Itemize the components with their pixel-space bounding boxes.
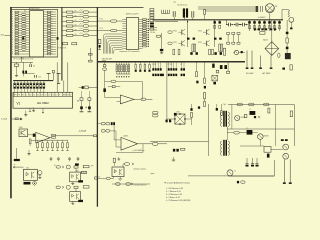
transformer T2 core upper (223, 111, 225, 127)
svg-text:R5 10к: R5 10к (151, 32, 156, 34)
transistor VT10 (235, 115, 240, 120)
chain2 right of LCD (88, 98, 91, 101)
svg-text:BU808: BU808 (264, 135, 269, 137)
svg-text:С1 100мк: С1 100мк (151, 27, 158, 29)
cell base ovals (168, 31, 172, 33)
optocoupler U4 (24, 169, 38, 180)
bottom cluster blobs (173, 149, 175, 152)
svg-text:КТ315: КТ315 (198, 42, 202, 44)
crystal ZQ1 (14, 64, 19, 66)
oval on lower wire 2 (126, 183, 131, 186)
svg-text:C9: C9 (33, 66, 35, 68)
op-amp U7 (121, 137, 138, 150)
svg-text:R: R (12, 21, 13, 23)
svg-text:R: R (12, 51, 13, 53)
box pair bottom (264, 146, 271, 152)
fan motor M1 (265, 4, 274, 13)
blob under xbox (213, 82, 216, 85)
svg-text:Т.РУ: Т.РУ (91, 166, 94, 168)
wire R30 down (104, 70, 106, 88)
wire 4-20 input (12, 118, 22, 120)
terminal AC pads (259, 68, 262, 69)
small rect pair (216, 70, 219, 73)
long vertical wire x167 (166, 63, 168, 120)
oval on lower wire 1 (116, 183, 121, 186)
resistor R24 (89, 60, 93, 62)
svg-text:V1: V1 (17, 101, 21, 105)
svg-text:С2 100мк: С2 100мк (151, 29, 158, 31)
ground top bl (28, 150, 30, 153)
svg-text:P4: P4 (18, 94, 20, 96)
svg-text:R3 IRK2 T08: R3 IRK2 T08 (58, 48, 67, 50)
svg-text:SB1 SB2 SB3: SB1 SB2 SB3 (102, 58, 112, 60)
IC U1 pin stubs (27, 12, 45, 54)
arrow connector bl (13, 166, 15, 168)
main mid bus (97, 61, 245, 63)
svg-text:КТ315: КТ315 (173, 42, 177, 44)
op-amp U5 (120, 95, 134, 104)
right chain resistor (286, 38, 288, 43)
sensor box U306 (19, 129, 28, 137)
left small rects row1 (227, 32, 230, 34)
svg-text:U306: U306 (19, 127, 23, 129)
svg-text:2- 7 Витков 0.35: 2- 7 Витков 0.35 (166, 191, 182, 193)
wire row2 to V3 (75, 188, 77, 191)
svg-text:R: R (12, 26, 13, 28)
svg-text:VD: VD (75, 20, 77, 22)
vertical x274 (273, 160, 275, 176)
drop resistor R30 (104, 63, 106, 65)
resistor R23 (89, 53, 93, 55)
capacitor C3 blob (160, 49, 163, 51)
svg-text:P3: P3 (15, 94, 17, 96)
diamond terminal (32, 181, 37, 185)
LCD module V1 box (13, 92, 73, 108)
wire R6 down (161, 33, 163, 49)
ground stub U2 (99, 48, 101, 50)
svg-text:K: K (26, 94, 27, 96)
svg-text:Камера нагрева: Камера нагрева (134, 169, 147, 171)
cap T2 near bus end (57, 72, 61, 74)
transistor cells Q1-Q4 (173, 20, 215, 47)
oval terminal (241, 181, 245, 183)
svg-text:R: R (12, 28, 13, 30)
svg-text:VD: VD (75, 11, 77, 13)
right chain blob1 (286, 32, 289, 35)
top element right of LCD (82, 86, 84, 89)
terminal DC wires (246, 51, 248, 68)
capacitor cluster top right (226, 23, 247, 27)
long bottom wire (188, 175, 274, 177)
optocoupler V2 (70, 172, 81, 182)
svg-text:D0: D0 (29, 94, 31, 96)
svg-text:L1: L1 (249, 109, 251, 111)
chain x191 (191, 104, 193, 108)
IC U1 body (30, 11, 44, 57)
svg-text:D5: D5 (48, 94, 50, 96)
vertical wire x232 (231, 105, 233, 130)
transformer T2 core lower (223, 140, 225, 156)
opto lower wire (112, 183, 150, 185)
svg-text:D4: D4 (44, 94, 46, 96)
ground under V2 (72, 182, 74, 184)
svg-text:VD: VD (75, 29, 77, 31)
chain R41 (204, 63, 206, 79)
diode-resistor rows block B (62, 9, 98, 36)
vertical wire x275.6 (275, 105, 277, 147)
capacitor C9 (29, 64, 31, 67)
core link wire (227, 127, 229, 140)
svg-text:термо: термо (150, 173, 154, 175)
svg-text:R: R (12, 16, 13, 18)
opto input wire (97, 177, 106, 179)
oval D13 (234, 131, 240, 134)
ground symbol b (33, 108, 35, 111)
connector XP2 ticks (162, 10, 170, 14)
wire y146 segments (240, 145, 264, 147)
transistor Q5 power (234, 50, 238, 54)
svg-text:Камера питания: Камера питания (134, 185, 147, 187)
horizontal wire y129 (227, 128, 294, 130)
+5V arrow (21, 58, 23, 63)
trimmer bank bottom wire (116, 73, 130, 75)
svg-text:R: R (12, 19, 13, 21)
oval on wire (152, 143, 158, 146)
transistor Q8 (283, 153, 289, 159)
frame top border line (10, 6, 143, 8)
wire VD8 right (186, 118, 192, 120)
wire osc top (12, 61, 33, 63)
op-amp U6 (36, 132, 50, 143)
svg-text:D1: D1 (33, 94, 35, 96)
svg-text:КТ315: КТ315 (198, 31, 202, 33)
ground osc (16, 74, 18, 75)
box above bridge (260, 32, 265, 35)
relay K1 (285, 53, 291, 59)
blob near Q5 (241, 51, 243, 53)
fan cable connector (256, 6, 259, 8)
svg-text:M1: M1 (275, 6, 277, 8)
wide blob (161, 74, 164, 76)
wire VD8 left (167, 118, 174, 120)
LCD bottom stub 2 (42, 108, 44, 112)
fan cable wires (198, 6, 255, 8)
wire fan to bus (269, 13, 271, 20)
top right bus (153, 19, 284, 21)
ground under V3 (72, 201, 74, 203)
svg-text:L2: L2 (246, 128, 248, 130)
resistor array left of U1 (12, 11, 27, 55)
jumper mark right (57, 37, 59, 40)
frame left border bar (10, 7, 12, 198)
resistor R52 (52, 137, 56, 139)
hatched rect near V2 (81, 171, 86, 173)
blob pair mid (190, 52, 192, 55)
wire bus end drop (227, 62, 229, 71)
svg-text:R: R (12, 14, 13, 16)
svg-text:ТР-2 Ш-20 АЛЮ(2хП 0.5мм): ТР-2 Ш-20 АЛЮ(2хП 0.5мм) (164, 182, 190, 185)
bridge VD8 corner circles (174, 118, 176, 120)
blob-rect pair x214 (214, 20, 216, 21)
terminal DC pads (246, 68, 249, 69)
resistor right mid (290, 65, 292, 70)
svg-text:P1.0: P1.0 (100, 18, 103, 20)
IC U2 pin stubs (122, 19, 142, 48)
resistor vert x224 (223, 48, 225, 55)
pot symbols row (50, 158, 79, 162)
LCD bus (13, 80, 53, 82)
wire to K2 (16, 148, 18, 159)
blob pair mid2 (214, 52, 216, 55)
right vertical wire (293, 105, 295, 147)
resistor R53 (94, 135, 97, 137)
svg-text:AT89C51-24PC: AT89C51-24PC (126, 13, 139, 16)
capacitor C10 (34, 75, 36, 78)
transistor blobs osc (22, 71, 24, 74)
svg-text:D7: D7 (56, 94, 58, 96)
transistor Q7 (283, 144, 289, 150)
svg-text:V: V (70, 94, 71, 96)
svg-text:R: R (12, 40, 13, 42)
svg-text:R: R (12, 33, 13, 35)
ground near opto (118, 157, 120, 159)
oval VD20 (103, 68, 107, 70)
left margin connector (5, 34, 11, 36)
svg-text:AC 220V: AC 220V (262, 72, 271, 75)
wire transformer top (155, 21, 178, 23)
op-amp U5 output (134, 98, 141, 100)
wire block B right (89, 48, 91, 60)
cell bottom resistors (173, 49, 175, 55)
chain top wires (81, 91, 83, 98)
small comp mid right (244, 114, 247, 117)
cap blobs in1 (111, 122, 113, 125)
box A bottom line (11, 56, 58, 58)
svg-text:VD8: VD8 (176, 111, 179, 113)
LCD bottom stub 1 (29, 108, 31, 111)
resistor above bus x204 (204, 10, 206, 15)
output terminal wires (283, 160, 285, 183)
stub at divider bl (95, 177, 98, 179)
resistor R31 (112, 86, 115, 88)
svg-text:AT89C2051: AT89C2051 (29, 7, 40, 10)
resistor ladder above LCD (14, 81, 45, 93)
svg-text:IC1: IC1 (24, 11, 27, 13)
oval D11 (249, 103, 255, 106)
svg-text:D2: D2 (37, 94, 39, 96)
ground under U3 (119, 177, 121, 179)
resistor R21 (63, 43, 68, 45)
LCD pin strip cells (14, 92, 71, 96)
svg-text:1- 120 Витков 0.32: 1- 120 Витков 0.32 (166, 188, 184, 190)
output terminal pads (283, 182, 286, 184)
fuse oval right (278, 53, 280, 58)
vertical line x62 (block B left edge) (61, 7, 63, 80)
circle meter (289, 17, 294, 22)
opto out wire (122, 164, 124, 167)
caps blobs mid (166, 120, 168, 123)
IC U2 body (126, 18, 138, 50)
ground mid bottom (173, 157, 175, 160)
resistor zigzag top right (288, 10, 290, 18)
wire bl1 (13, 166, 23, 168)
oval pair in2 (101, 130, 105, 133)
trimmer resistor bank (116, 63, 130, 75)
T2 winding arcs (221, 112, 222, 126)
svg-text:R: R (12, 12, 13, 14)
left small rects row2 (227, 42, 230, 44)
Q6 emitter wire (259, 139, 261, 146)
svg-text:R: R (12, 35, 13, 37)
op-amp U6 output (50, 137, 52, 139)
wire in1 down (113, 125, 115, 140)
blob-rect pair x219 (219, 20, 221, 21)
right chain blob2 (286, 47, 289, 50)
black bar under U4 (24, 182, 31, 185)
svg-text:4x IN4007: 4x IN4007 (258, 17, 266, 19)
svg-text:5- 70 Витков 0.35 (КАТ1М): 5- 70 Витков 0.35 (КАТ1М) (166, 199, 191, 202)
LCD pin strip line (13, 95, 73, 97)
svg-text:802: 802 (26, 168, 29, 170)
small comp below bus end (227, 71, 230, 73)
drop x216 (216, 104, 218, 108)
inductor L1 (250, 111, 256, 115)
svg-text:E: E (59, 94, 60, 96)
wire y176 (229, 175, 275, 177)
trimmer bank dots (116, 76, 129, 77)
svg-text:4-20мА: 4-20мА (1, 118, 8, 121)
inductor L2 (247, 130, 253, 135)
svg-text:(с) 303 ШИМ рег: (с) 303 ШИМ рег (133, 150, 146, 152)
resistor array right of U2 (143, 19, 149, 47)
wire osc v1 (16, 62, 18, 64)
svg-text:КЦ405: КЦ405 (263, 39, 268, 41)
terminal AC wires (260, 56, 262, 68)
svg-text:D6: D6 (52, 94, 54, 96)
dark rect D1 (212, 64, 214, 68)
svg-text:4- 2 Витка 0.32: 4- 2 Витка 0.32 (166, 197, 181, 199)
dark rect D3 (224, 65, 227, 69)
resistor above opto (113, 158, 115, 162)
arrow on lower wire (131, 183, 133, 185)
svg-text:+5: +5 (23, 58, 25, 60)
svg-text:НН 0802: НН 0802 (37, 101, 49, 105)
cell resistor pairs (192, 44, 194, 52)
oval D10 (237, 103, 243, 106)
cap circle right of U4 (38, 171, 42, 175)
svg-text:R: R (12, 54, 13, 56)
xbox small (212, 75, 218, 81)
svg-text:P5: P5 (22, 94, 24, 96)
svg-text:набор: набор (102, 60, 106, 62)
oval pair mid1 (152, 111, 158, 114)
blob pair right (281, 139, 284, 141)
svg-text:R: R (12, 49, 13, 51)
capacitor C15 (191, 11, 193, 17)
oval on output (141, 98, 146, 101)
resistor column x150 (150, 9, 154, 31)
svg-text:C7 C8: C7 C8 (168, 64, 172, 66)
svg-text:перемычка п17 выключатель: перемычка п17 выключатель (119, 51, 139, 53)
blob right mid (282, 68, 285, 70)
wire bridge top (271, 20, 273, 42)
svg-text:3- 70 Витков 0.45: 3- 70 Витков 0.45 (166, 194, 183, 196)
cell capacitor blobs (187, 38, 190, 40)
bridge VD8 (175, 114, 185, 124)
svg-text:VD: VD (75, 15, 77, 17)
svg-text:P1.1: P1.1 (100, 28, 103, 30)
wire from divider (97, 123, 101, 125)
capacitor C13 (99, 45, 101, 48)
relay row 2 (56, 186, 60, 188)
blob under V3 (78, 200, 83, 202)
transistor Q9 (227, 170, 233, 176)
svg-text:C5 C6: C5 C6 (152, 64, 156, 66)
svg-text:ВУП: ВУП (76, 171, 79, 173)
resistor below U6 input (29, 139, 31, 144)
svg-text:Тр2: Тр2 (223, 104, 226, 106)
bridge rectifier VD1 (265, 42, 279, 56)
dark rect D2 (220, 65, 223, 69)
long vertical x208 (208, 104, 210, 156)
capacitor C12 (98, 40, 101, 44)
svg-text:VD: VD (75, 34, 77, 36)
diode row under top bus (248, 20, 281, 31)
svg-text:R: R (12, 47, 13, 49)
chain1 right of LCD (80, 98, 83, 101)
svg-text:C9: C9 (180, 64, 182, 66)
svg-text:DC=14V: DC=14V (246, 73, 254, 75)
capacitor blob clusters (152, 63, 185, 77)
op-amp U7 output (138, 143, 153, 145)
wire row1 to V2 (75, 168, 77, 172)
cap T1 on LCD bus (47, 72, 51, 74)
top row wire y104.5 (228, 104, 294, 106)
winding list (166, 188, 191, 202)
transistor Q6 BU808 (258, 134, 264, 140)
svg-text:C10: C10 (38, 77, 41, 79)
cap marks (254, 116, 256, 118)
svg-text:TL2: TL2 (173, 2, 176, 4)
black bar K2 (14, 159, 20, 161)
wire U6 to divider (56, 135, 94, 137)
optocoupler U3 (112, 167, 124, 177)
wire tl2 drops (173, 17, 175, 20)
oval D12 (264, 103, 270, 106)
wire Q5 (233, 52, 234, 54)
box A outline (11, 9, 58, 57)
capacitor C30 (33, 134, 35, 137)
svg-text:R: R (12, 44, 13, 46)
oval pair in1 (101, 122, 105, 125)
wire C20 to opamp (104, 92, 106, 98)
op-amp U7 input2 (116, 146, 121, 148)
T2 winding arcs lower (221, 141, 222, 155)
svg-text:4-20мА: 4-20мА (79, 129, 87, 132)
resistor R60 (268, 108, 270, 113)
svg-text:R: R (12, 30, 13, 32)
optocoupler V3 (70, 192, 81, 202)
wire osc h2 (23, 73, 34, 75)
bus divider vertical line (96, 7, 98, 206)
resistor R61 (290, 111, 292, 117)
plus marks (77, 100, 79, 102)
svg-text:RS: RS (67, 94, 69, 96)
LCD wire drops (56, 62, 58, 92)
op-amp U6 inputs (28, 134, 36, 136)
ground C3 (161, 51, 163, 52)
resistor R6 (157, 35, 161, 37)
